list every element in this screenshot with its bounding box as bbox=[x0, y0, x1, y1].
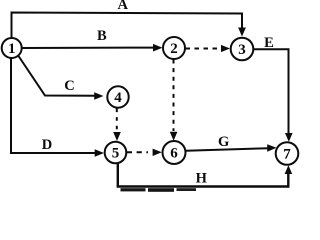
arrowhead into node7 from E bbox=[285, 133, 293, 142]
dummy dashed 2 to 3 bbox=[186, 48, 222, 50]
arrowhead into node5 from dummy 4-5 bbox=[113, 132, 121, 141]
arrowhead into node7 from G bbox=[267, 144, 276, 152]
svg-text:D: D bbox=[42, 137, 52, 153]
svg-text:B: B bbox=[97, 28, 107, 44]
wire D: node1 down left side then right to node5 bbox=[11, 58, 97, 153]
node 6 bbox=[163, 141, 186, 164]
wire E: node3 right then down into node7 bbox=[254, 49, 289, 134]
svg-text:7: 7 bbox=[283, 147, 291, 163]
arrowhead into node6 from dummy 5-6 bbox=[153, 149, 162, 156]
svg-text:E: E bbox=[264, 35, 274, 51]
dummy dashed 4 down to 5 bbox=[116, 109, 118, 132]
svg-text:6: 6 bbox=[170, 146, 178, 162]
svg-text:H: H bbox=[196, 171, 208, 187]
svg-text:C: C bbox=[64, 78, 74, 94]
svg-text:A: A bbox=[117, 0, 128, 13]
arrowhead into node6 from dummy 2-6 bbox=[170, 132, 178, 141]
node 3 bbox=[231, 38, 254, 61]
node 1 bbox=[2, 38, 22, 58]
svg-text:G: G bbox=[218, 134, 229, 150]
node 5 bbox=[105, 142, 127, 164]
arrowhead into node7 from H (pointing up) bbox=[285, 165, 293, 174]
wire G: node6 to node7 bbox=[186, 148, 269, 151]
svg-text:1: 1 bbox=[8, 41, 16, 57]
node 7 bbox=[276, 142, 299, 165]
wire H: node5 down, along bottom, up into node7 bbox=[118, 164, 288, 187]
node 4 bbox=[107, 86, 128, 107]
arrowhead into node3 from A bbox=[238, 28, 246, 37]
svg-text:3: 3 bbox=[238, 42, 246, 58]
svg-text:4: 4 bbox=[114, 90, 122, 106]
svg-text:2: 2 bbox=[170, 41, 178, 57]
arrowhead into node4 from C bbox=[94, 92, 103, 100]
node 2 bbox=[163, 37, 185, 59]
dummy dashed 2 down to 6 bbox=[173, 60, 175, 132]
arrowhead into node3 from dummy 2-3 bbox=[221, 45, 230, 52]
arrowhead into node5 from D bbox=[95, 149, 104, 157]
arrowhead into node2 from B bbox=[153, 44, 163, 52]
wire A: node1 top, across top, down into node 3 bbox=[12, 13, 243, 39]
wire C: node1 diagonal then horizontal to node4 bbox=[19, 56, 96, 96]
scan blotch under H line bbox=[121, 188, 146, 191]
dummy dashed 5 to 6 bbox=[127, 151, 148, 153]
svg-text:5: 5 bbox=[112, 146, 120, 162]
wire B: node1 to node2 bbox=[23, 47, 156, 49]
